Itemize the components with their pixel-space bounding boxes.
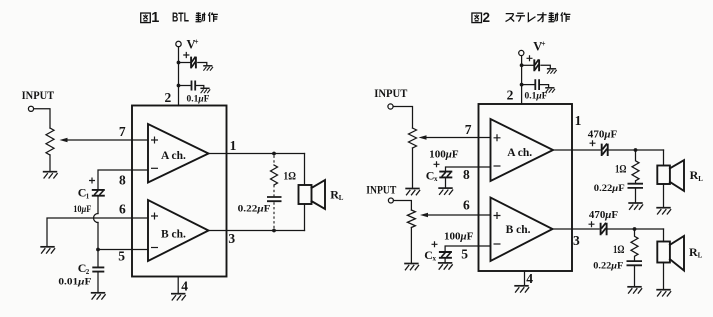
input terminal A (fig2) (388, 104, 393, 109)
svg-text:8: 8 (463, 167, 470, 182)
plus mark A (fig2) (494, 134, 501, 141)
wire cap to speaker A (608, 149, 664, 151)
capacitor Cx1 100uF electrolytic (434, 161, 453, 177)
wire pin 7 with wiper arrow (fig2) (425, 137, 491, 139)
wire zobel B to ground (634, 266, 636, 286)
node power tap 2 (fig2) (520, 83, 524, 87)
wire pin 1 output (fig2) (553, 149, 600, 151)
wire pin 7 with wiper arrow (66, 139, 148, 141)
node power tap 2 (177, 84, 181, 88)
wire pin 8 to C1 (98, 170, 148, 189)
wire down to speaker B (663, 229, 665, 242)
wire cap to speaker B (607, 228, 664, 230)
wire pot B to ground (410, 228, 412, 264)
svg-text:BTL: BTL (172, 11, 189, 25)
op-amp B ch. (148, 200, 209, 261)
speaker RL B (fig2) (657, 236, 684, 271)
svg-text:0.1μF: 0.1μF (187, 95, 210, 105)
resistor 1 ohm B (fig2) (631, 229, 638, 260)
svg-text:L: L (698, 252, 703, 260)
wire C1 down with hop over pin6 wire (97, 197, 99, 250)
svg-text:0.22μF: 0.22μF (238, 205, 271, 215)
potentiometer VR-A (fig2) (409, 128, 417, 148)
minus mark A (fig2) (494, 165, 501, 167)
wire cap2 to ground (fig2) (540, 85, 549, 88)
svg-text:0.1μF: 0.1μF (525, 92, 548, 102)
svg-text:4: 4 (181, 278, 188, 293)
wire Cx2 to ground (444, 259, 446, 262)
svg-text:7: 7 (465, 122, 472, 137)
node zobel top (272, 152, 276, 156)
ground (C2) (91, 293, 106, 300)
IC U1 box (132, 106, 227, 277)
capacitor 0.1uF plates (192, 81, 196, 91)
svg-text:100μF: 100μF (444, 232, 473, 243)
svg-text:+: + (194, 38, 199, 47)
wire pot A to ground (412, 148, 414, 188)
node power tap 1 (fig2) (520, 63, 524, 67)
katakana te (516, 13, 525, 21)
svg-text:INPUT: INPUT (366, 183, 396, 197)
capacitor 0.1uF plates (fig2) (535, 79, 539, 90)
svg-text:A ch.: A ch. (507, 147, 532, 159)
speaker RL A (fig2) (657, 160, 684, 191)
kanji 作 (208, 12, 218, 22)
wire input to pot (34, 109, 50, 128)
capacitor electrolytic (power, +) (183, 52, 196, 69)
kanji 図 (141, 13, 151, 23)
ground (power cap1 fig2) (547, 69, 557, 74)
ground (speaker A fig2) (656, 208, 671, 215)
svg-text:8: 8 (119, 173, 126, 188)
wire cap1 to ground (198, 63, 207, 66)
wire pin 3 output (209, 230, 305, 232)
svg-text:100μF: 100μF (429, 150, 459, 161)
svg-text:L: L (339, 194, 344, 202)
svg-text:1: 1 (151, 10, 159, 26)
svg-text:470μF: 470μF (589, 210, 618, 221)
input terminal B (fig2) (388, 198, 393, 203)
speaker RL (299, 180, 326, 209)
svg-text:1: 1 (230, 138, 237, 153)
svg-text:3: 3 (573, 233, 580, 248)
wire to bypass cap1 (fig2) (522, 64, 534, 66)
svg-text:2: 2 (483, 10, 491, 25)
wire to speaker bottom (304, 204, 306, 231)
wire to bypass cap2 (179, 85, 192, 87)
kanji 動 (548, 12, 558, 22)
wire pin 1 output (209, 153, 305, 155)
minus mark A (151, 167, 158, 169)
capacitor C2 0.01uF (92, 267, 104, 271)
ground (pin 6) (40, 247, 55, 254)
wire speaker A to ground (663, 184, 665, 207)
wire pin 8 to Cx1 (fig2) (446, 167, 491, 171)
svg-text:L: L (698, 175, 703, 183)
svg-text:2: 2 (507, 87, 514, 102)
input terminal (28, 106, 33, 111)
ground (Cx2) (438, 263, 453, 270)
svg-text:470μF: 470μF (588, 130, 618, 141)
dashed link mid (273, 185, 275, 196)
svg-text:+: + (541, 40, 546, 49)
potentiometer VR-B (fig2) (407, 210, 415, 228)
capacitor electrolytic (power fig2, +) (527, 55, 540, 71)
katakana su (506, 14, 515, 22)
wire to bypass cap2 (fig2) (522, 84, 535, 86)
capacitor 0.22uF A (fig2) (628, 184, 644, 188)
wire V+ down to pin 2 (fig2) (521, 56, 523, 104)
op-amp A ch. (fig2) (491, 119, 554, 181)
node power tap 1 (177, 61, 181, 65)
svg-text:1: 1 (575, 113, 582, 128)
wire V+ down to pin 2 (178, 47, 180, 106)
katakana re (528, 12, 535, 21)
ground (pot B fig2) (404, 264, 419, 271)
svg-text:1Ω: 1Ω (613, 244, 625, 256)
svg-text:2: 2 (86, 268, 90, 276)
node zobel A (634, 148, 638, 152)
svg-text:INPUT: INPUT (22, 88, 55, 102)
wire Cx1 to ground (445, 179, 447, 188)
title figure 1: 図1 BTL 動作 (141, 10, 218, 26)
svg-text:4: 4 (526, 271, 533, 286)
minus mark B (151, 247, 158, 249)
wire zobel A to ground (635, 189, 637, 203)
op-amp A ch. (148, 124, 209, 183)
resistor 1 ohm (271, 165, 278, 185)
svg-text:0.22μF: 0.22μF (593, 262, 623, 272)
potentiometer VR1 (46, 128, 54, 155)
resistor 1 ohm A (fig2) (632, 150, 639, 183)
ground (pot A fig2) (405, 189, 420, 196)
plus mark A (151, 137, 158, 144)
capacitor 0.22uF (267, 197, 282, 201)
svg-text:6: 6 (119, 202, 126, 217)
svg-text:6: 6 (463, 198, 470, 213)
wire pot to ground (49, 155, 51, 171)
dashed link top (273, 156, 275, 166)
capacitor 470uF B electrolytic (589, 221, 607, 235)
svg-text:x: x (434, 175, 438, 183)
ground (zobel B fig2) (627, 287, 642, 294)
svg-text:3: 3 (228, 231, 235, 246)
wire pin 5 (98, 249, 148, 251)
node zobel B (633, 227, 637, 231)
ground (pin 4) (171, 294, 186, 301)
plus mark B (fig2) (494, 212, 501, 219)
kanji 作 (561, 12, 571, 22)
ground (zobel A fig2) (628, 203, 643, 210)
svg-text:INPUT: INPUT (374, 86, 407, 100)
svg-text:x: x (433, 255, 437, 263)
katakana o (537, 12, 546, 21)
op-amp B ch. (fig2) (491, 198, 553, 262)
capacitor Cx2 100uF electrolytic (432, 241, 452, 257)
wire pin 4 to ground (177, 277, 179, 294)
wire down to speaker A (663, 150, 665, 166)
ground (power cap1) (203, 66, 213, 71)
svg-text:A ch.: A ch. (161, 150, 186, 162)
node zobel bottom (272, 229, 276, 233)
svg-text:7: 7 (119, 124, 126, 139)
ground (Cx1) (438, 188, 453, 195)
ground (pot) (43, 172, 58, 179)
capacitor C1 10uF electrolytic (89, 178, 105, 196)
plus mark B (151, 213, 158, 220)
ground (speaker B fig2) (656, 290, 671, 297)
wire C2 to ground (97, 273, 99, 293)
wire pin 5 to Cx2 (fig2) (445, 246, 490, 252)
wire pin 6 with wiper arrow (fig2) (427, 214, 491, 216)
svg-text:1: 1 (86, 193, 90, 201)
wire speaker B to ground (663, 263, 665, 290)
wire hop arc (94, 214, 99, 223)
node C1/C2/pin5 (96, 248, 100, 252)
svg-text:1Ω: 1Ω (615, 164, 627, 176)
svg-text:5: 5 (118, 249, 125, 264)
svg-text:B ch.: B ch. (506, 224, 531, 236)
svg-text:5: 5 (461, 247, 468, 262)
ground (pin 4 fig2) (514, 286, 529, 293)
svg-text:0.22μF: 0.22μF (594, 184, 625, 194)
svg-text:10μF: 10μF (73, 205, 91, 215)
wire cap1 to ground (fig2) (541, 65, 550, 68)
ground (power cap2) (200, 88, 210, 93)
kanji 図 (472, 13, 482, 23)
wire pin 3 output (fig2) (553, 228, 600, 230)
svg-text:0.01μF: 0.01μF (58, 278, 91, 288)
wire to speaker top (304, 154, 306, 186)
V+ terminal (fig2) (519, 50, 524, 55)
wire pin 6 to ground (47, 218, 148, 246)
wire pin 4 to ground (fig2) (524, 271, 526, 285)
kanji 動 (196, 12, 206, 22)
svg-text:2: 2 (165, 90, 172, 105)
wire input A to pot (393, 107, 412, 129)
capacitor 470uF A electrolytic (590, 140, 608, 156)
V+ terminal (176, 41, 181, 46)
svg-text:B ch.: B ch. (161, 228, 186, 240)
capacitor 0.22uF B (fig2) (627, 261, 643, 265)
wire node to C2 (97, 250, 99, 267)
svg-text:1Ω: 1Ω (283, 171, 296, 183)
wire input B to pot (394, 201, 412, 211)
title figure 2: 図2 ステレオ動作 (472, 10, 570, 25)
minus mark B (fig2) (494, 243, 501, 245)
wire cap2 to ground (196, 86, 204, 89)
dashed link bottom (273, 202, 275, 229)
ground (power cap2 fig2) (545, 88, 555, 93)
wire to bypass cap1 (179, 62, 191, 64)
IC U2 box (479, 104, 573, 271)
